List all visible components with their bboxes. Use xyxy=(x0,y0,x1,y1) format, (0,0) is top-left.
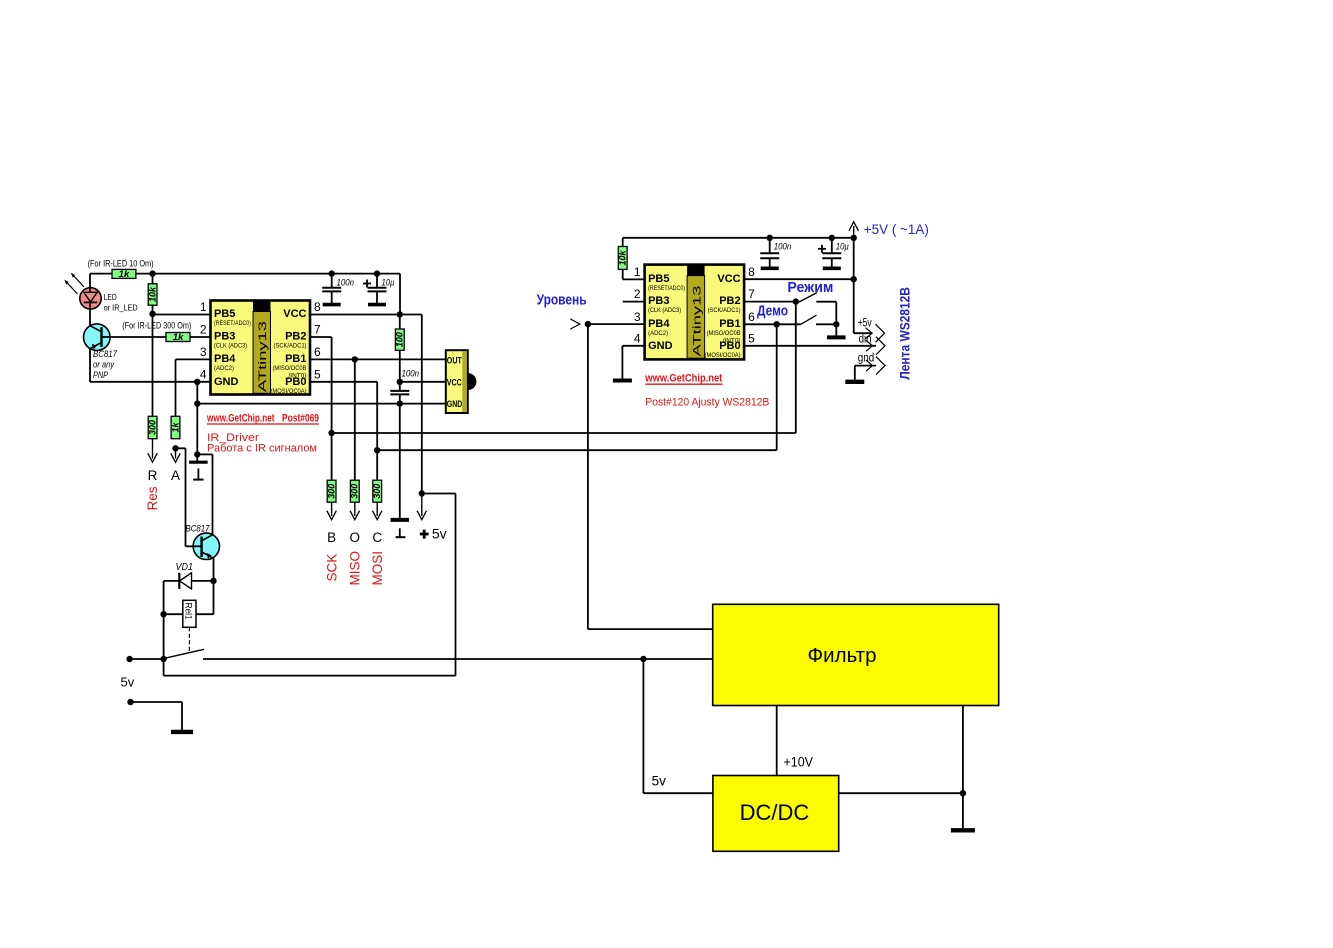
svg-text:1k: 1k xyxy=(119,269,130,280)
svg-text:1k: 1k xyxy=(173,332,184,343)
svg-text:2: 2 xyxy=(200,323,207,337)
svg-text:GND: GND xyxy=(648,340,673,352)
wire VCC pin8 chip2 xyxy=(744,278,854,280)
svg-text:100n: 100n xyxy=(774,241,792,252)
svg-text:BC817: BC817 xyxy=(93,349,118,360)
relay actuation dashed xyxy=(188,627,190,652)
svg-text:GND: GND xyxy=(447,399,463,410)
wire filter right to ground xyxy=(962,706,964,829)
block Filter xyxy=(713,604,999,705)
svg-text:PB5: PB5 xyxy=(214,308,235,320)
wire pin4 GND chip2 xyxy=(622,345,644,347)
ground symbol mid xyxy=(391,518,410,522)
wire Q1 base xyxy=(110,336,166,338)
svg-text:(CLK (ADC3): (CLK (ADC3) xyxy=(648,307,681,314)
resistor R5 300 xyxy=(326,480,337,502)
svg-text:Post#069: Post#069 xyxy=(282,412,319,424)
relay Re1 xyxy=(183,600,196,627)
ground switches xyxy=(827,335,846,339)
ground connector xyxy=(845,380,864,384)
svg-text:www.GetChip.net: www.GetChip.net xyxy=(206,412,274,424)
pin +5V arrow up xyxy=(853,226,855,238)
svg-text:+10V: +10V xyxy=(784,755,814,770)
node VCC junction xyxy=(397,311,403,317)
svg-text:R: R xyxy=(148,468,158,483)
wire pin6 PB1 to receiver OUT xyxy=(310,358,446,360)
svg-text:VCC: VCC xyxy=(283,308,306,320)
svg-text:PB0: PB0 xyxy=(719,340,740,352)
svg-text:SCK: SCK xyxy=(325,554,340,582)
transistor Q1 BC817 xyxy=(84,324,111,351)
svg-text:PB2: PB2 xyxy=(719,295,740,307)
node rail at C5 xyxy=(829,235,835,241)
node GND rail junction xyxy=(194,400,200,406)
svg-text:VCC: VCC xyxy=(447,377,462,388)
wire +V rail top-left xyxy=(90,273,112,275)
svg-text:(RESET/ADC0): (RESET/ADC0) xyxy=(648,285,685,292)
node PB1 chip2 junction xyxy=(774,321,780,327)
svg-text:(CLK (ADC3): (CLK (ADC3) xyxy=(214,343,247,350)
resistor R1 1k xyxy=(112,269,136,280)
switch Demo lever xyxy=(801,315,817,324)
svg-text:(MISO/OC0B: (MISO/OC0B xyxy=(273,365,308,372)
wire pin5 PB0 down xyxy=(310,381,377,383)
svg-text:1: 1 xyxy=(634,265,641,279)
node DC/DC output junction xyxy=(960,790,966,796)
svg-text:or any: or any xyxy=(93,360,115,371)
node switch common junction xyxy=(833,321,839,327)
pin gnd out arrow xyxy=(876,357,885,375)
wire 10k top xyxy=(152,274,154,284)
wire PB0 to second chip xyxy=(377,449,777,451)
svg-text:10µ: 10µ xyxy=(382,277,395,288)
pin Uroven input chevron xyxy=(570,319,580,329)
wire Demo fixed contact xyxy=(816,323,836,325)
svg-text:Режим: Режим xyxy=(787,280,833,296)
node rail junction at C2 xyxy=(374,270,380,276)
node sensor junction xyxy=(194,451,200,457)
wire relay left lead xyxy=(164,613,183,615)
svg-text:C: C xyxy=(372,530,382,545)
svg-text:Лента WS2812B: Лента WS2812B xyxy=(898,287,913,380)
svg-text:Res: Res xyxy=(145,486,160,510)
wire Q1 emitter down xyxy=(89,349,91,382)
wire R10 to pin1 xyxy=(622,270,624,280)
svg-text:300: 300 xyxy=(147,419,158,435)
wire GND down xyxy=(196,382,198,462)
pin +5v out arrow xyxy=(876,324,885,342)
node PB2 branch xyxy=(328,430,334,436)
wire Q2 emitter xyxy=(213,558,215,581)
node ground terminal xyxy=(127,699,133,705)
svg-text:+5V ( ~1A): +5V ( ~1A) xyxy=(864,221,929,237)
svg-text:PNP: PNP xyxy=(93,370,108,381)
node 5v terminal xyxy=(126,656,132,662)
node rail at C4 xyxy=(767,235,773,241)
wire R4 top xyxy=(399,315,401,330)
resistor R9 1k xyxy=(170,416,181,438)
svg-text:gnd: gnd xyxy=(858,352,875,364)
svg-text:10µ: 10µ xyxy=(836,241,849,252)
capacitor C3 100n xyxy=(390,369,419,518)
svg-text:(MOSI/OC0A): (MOSI/OC0A) xyxy=(271,388,307,395)
svg-text:GND: GND xyxy=(214,376,239,388)
capacitor C1 100n xyxy=(322,274,354,305)
node rail junction at 10k xyxy=(149,270,155,276)
pin B arrow xyxy=(331,502,333,516)
svg-text:1k: 1k xyxy=(170,422,181,433)
svg-text:Rel1: Rel1 xyxy=(184,603,194,620)
svg-text:(MISO/OC0B: (MISO/OC0B xyxy=(707,330,742,337)
wire relay right lead xyxy=(196,613,214,615)
svg-text:10k: 10k xyxy=(147,286,158,302)
wire R4 bottom xyxy=(399,350,401,391)
svg-text:O: O xyxy=(350,530,361,545)
svg-text:MISO: MISO xyxy=(348,551,363,586)
wire LED cathode to Q1 xyxy=(89,309,91,325)
node switch junction xyxy=(160,656,166,662)
wire 5v to switch xyxy=(130,658,164,660)
svg-text:PB3: PB3 xyxy=(214,331,235,343)
wire A to Q2 base xyxy=(176,447,186,449)
wire VCC pin8 xyxy=(310,314,422,316)
node VCC junction chip2 xyxy=(851,276,857,282)
resistor R4 100 xyxy=(395,329,406,350)
LED D1 xyxy=(80,288,101,309)
wire VCC down to +5v xyxy=(421,315,423,494)
svg-text:100: 100 xyxy=(395,331,406,347)
svg-text:OUT: OUT xyxy=(447,355,462,366)
wire PB2 to second chip xyxy=(332,432,796,434)
svg-text:6: 6 xyxy=(314,345,321,359)
svg-text:A: A xyxy=(171,468,180,483)
block DC/DC xyxy=(713,776,839,852)
svg-text:(RESET/ADC0): (RESET/ADC0) xyxy=(214,320,251,327)
wire pin7 PB2 chip2 xyxy=(744,301,800,303)
node rail at arrow xyxy=(851,235,857,241)
wire switch output xyxy=(203,658,713,660)
resistor R8 300 xyxy=(147,416,158,438)
svg-text:www.GetChip.net: www.GetChip.net xyxy=(644,372,722,384)
switch S1 lever xyxy=(165,649,205,658)
node GND rail cap junction xyxy=(397,400,403,406)
svg-text:Фильтр: Фильтр xyxy=(808,644,877,667)
node PB0 branch xyxy=(374,447,380,453)
wire R3 to pin2 xyxy=(190,336,211,338)
wire +5v arrow lead xyxy=(421,494,423,517)
svg-text:or IR_LED: or IR_LED xyxy=(104,302,138,312)
svg-text:5: 5 xyxy=(314,367,321,381)
wire 5v branch xyxy=(163,659,165,676)
LED emission arrows xyxy=(64,273,84,294)
wire din out xyxy=(744,345,876,347)
svg-text:100n: 100n xyxy=(402,369,420,380)
svg-text:5v: 5v xyxy=(432,526,447,542)
svg-text:din: din xyxy=(859,334,872,346)
node PB2 chip2 junction xyxy=(793,298,799,304)
svg-text:300: 300 xyxy=(372,483,383,499)
ground sensor xyxy=(197,469,199,479)
node Uroven junction xyxy=(585,321,591,327)
wire +5v out xyxy=(854,332,873,334)
node RESET junction xyxy=(149,311,155,317)
wire 10k bottom / R column xyxy=(152,305,154,416)
svg-text:ATtiny13: ATtiny13 xyxy=(257,321,269,392)
node +5v junction xyxy=(419,490,425,496)
wire filter to +10V xyxy=(776,706,778,776)
switch Rezhim lever xyxy=(800,293,817,302)
svg-text:(SCK/ADC1): (SCK/ADC1) xyxy=(708,307,741,314)
svg-text:PB0: PB0 xyxy=(285,376,306,388)
wire VD1 to relay left xyxy=(163,581,165,659)
resistor R3 1k xyxy=(166,332,190,343)
svg-text:Работа с IR сигналом: Работа с IR сигналом xyxy=(207,443,317,455)
svg-text:+5v: +5v xyxy=(858,318,872,330)
wire sensor to Q2 collector xyxy=(197,453,212,455)
node receiver VCC junction xyxy=(397,379,403,385)
sensor plate xyxy=(189,461,208,464)
pin O arrow xyxy=(354,502,356,516)
svg-text:PB5: PB5 xyxy=(648,273,669,285)
node relay left junction xyxy=(160,611,166,617)
svg-text:ATtiny13: ATtiny13 xyxy=(691,286,703,357)
svg-text:2: 2 xyxy=(634,287,641,301)
ground chip2 xyxy=(613,379,632,383)
wire +5V rail xyxy=(623,237,854,239)
svg-text:(ADC2): (ADC2) xyxy=(648,330,668,337)
wire pin1 PB5 xyxy=(153,314,211,316)
svg-text:(For IR-LED 300 Om): (For IR-LED 300 Om) xyxy=(122,321,191,332)
svg-text:Демо: Демо xyxy=(757,304,788,320)
wire ground stub xyxy=(131,701,183,703)
svg-text:PB1: PB1 xyxy=(285,353,306,365)
wire pin6 PB1 chip2 xyxy=(744,323,801,325)
pin C arrow xyxy=(376,502,378,516)
node A junction xyxy=(172,445,178,451)
svg-text:PB1: PB1 xyxy=(719,318,740,330)
svg-text:5v: 5v xyxy=(652,774,667,789)
wire +5v feed xyxy=(422,493,456,495)
IC U1 ATtiny13 xyxy=(200,300,321,395)
node VD1 junction xyxy=(210,578,216,584)
wire to DC/DC xyxy=(642,659,644,793)
svg-text:8: 8 xyxy=(748,265,755,279)
wire Rezhim fixed contact xyxy=(816,301,836,303)
svg-text:6: 6 xyxy=(748,310,755,324)
svg-text:PB2: PB2 xyxy=(285,331,306,343)
svg-text:3: 3 xyxy=(634,310,641,324)
svg-text:B: B xyxy=(327,530,336,545)
wire pin2 stub xyxy=(623,301,645,303)
capacitor C4 100n xyxy=(760,238,791,268)
svg-text:Уровень: Уровень xyxy=(537,293,587,309)
svg-text:300: 300 xyxy=(326,483,337,499)
svg-text:(SCK/ADC1): (SCK/ADC1) xyxy=(274,343,307,350)
svg-text:4: 4 xyxy=(200,367,207,381)
svg-text:7: 7 xyxy=(748,287,755,301)
wire Uroven to pin3 xyxy=(588,323,645,325)
IC U2 IR receiver xyxy=(446,350,477,413)
svg-text:8: 8 xyxy=(314,300,321,314)
pin R arrow xyxy=(152,439,154,459)
node PB1 branch xyxy=(352,356,358,362)
wire GND rail xyxy=(197,403,445,405)
wire pin4 GND xyxy=(90,381,211,383)
svg-text:7: 7 xyxy=(314,323,321,337)
svg-text:PB4: PB4 xyxy=(214,353,236,365)
svg-text:5v: 5v xyxy=(121,675,135,690)
wire receiver VCC xyxy=(400,381,446,383)
svg-text:100n: 100n xyxy=(337,277,355,288)
svg-text:PB3: PB3 xyxy=(648,295,669,307)
diode VD1 xyxy=(164,580,214,582)
ground bottom-left xyxy=(171,730,193,734)
svg-text:PB4: PB4 xyxy=(648,318,670,330)
svg-text:(ADC2): (ADC2) xyxy=(214,365,234,372)
node rail junction at C1 xyxy=(329,270,335,276)
resistor R10 10k xyxy=(618,247,629,270)
svg-text:4: 4 xyxy=(634,331,641,345)
wire gnd out xyxy=(855,365,876,367)
svg-text:10k: 10k xyxy=(618,250,629,266)
svg-text:DC/DC: DC/DC xyxy=(740,800,810,825)
resistor R7 300 xyxy=(372,480,383,502)
wire pin3 PB4 xyxy=(176,358,211,360)
capacitor C5 10u xyxy=(818,238,849,268)
pin +5v arrow xyxy=(417,511,427,520)
capacitor C2 10u xyxy=(363,274,395,305)
pin din out arrow xyxy=(876,337,885,355)
wire PB1 down xyxy=(354,359,356,480)
svg-text:VD1: VD1 xyxy=(176,562,194,573)
IC U3 ATtiny13 xyxy=(634,265,755,360)
label +5v mid xyxy=(420,533,429,536)
node GND junction xyxy=(194,379,200,385)
svg-text:(For IR-LED 10 Om): (For IR-LED 10 Om) xyxy=(88,258,154,269)
svg-text:LED: LED xyxy=(104,292,117,302)
wire Uroven down to filter xyxy=(587,324,589,629)
svg-text:Post#120 Ajusty WS2812B: Post#120 Ajusty WS2812B xyxy=(645,397,769,409)
resistor R2 10k xyxy=(147,284,158,305)
svg-text:300: 300 xyxy=(350,483,361,499)
ground DC/DC xyxy=(951,828,975,832)
transistor Q2 BC817 xyxy=(193,533,219,559)
svg-text:1: 1 xyxy=(200,300,207,314)
svg-text:(MOSI/OC0A): (MOSI/OC0A) xyxy=(705,352,741,359)
wire DC/DC output xyxy=(839,792,963,794)
pin A arrow xyxy=(175,448,177,458)
svg-text:3: 3 xyxy=(200,345,207,359)
svg-text:VCC: VCC xyxy=(717,273,740,285)
wire pin7 PB2 down xyxy=(310,336,332,338)
svg-text:MOSI: MOSI xyxy=(370,551,385,586)
wire VCC down to +5v out xyxy=(853,238,855,333)
wire LED anode xyxy=(89,274,91,288)
svg-text:5: 5 xyxy=(748,331,755,345)
node filter feed junction xyxy=(640,656,646,662)
resistor R6 300 xyxy=(350,480,361,502)
